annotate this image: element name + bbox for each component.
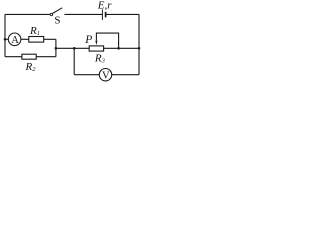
node dot junction <box>55 47 58 50</box>
wire voltmeter vertical <box>73 48 75 74</box>
wire battery-to-right <box>106 13 139 15</box>
node dot left <box>4 38 7 41</box>
wire rheostat slider link <box>96 33 118 48</box>
rheostat R3 <box>84 34 105 65</box>
wire middle bus <box>56 47 139 49</box>
wire voltmeter bottom <box>74 74 99 76</box>
svg-text:S: S <box>54 15 60 27</box>
wire top-left segment <box>5 13 50 15</box>
wire junction column <box>55 39 57 56</box>
node dot slider link <box>117 47 120 50</box>
ammeter A <box>8 33 21 46</box>
wire R2 branch <box>5 56 56 58</box>
svg-text:R1: R1 <box>29 25 40 37</box>
svg-text:P: P <box>84 34 92 46</box>
battery E,r <box>97 0 112 20</box>
wire right vertical <box>138 14 140 74</box>
wire ammeter-to-R1 <box>21 38 56 40</box>
svg-text:V: V <box>102 71 110 82</box>
node dot right bus <box>138 47 141 50</box>
resistor R1 <box>29 25 44 42</box>
node dot voltmeter tap <box>73 47 76 50</box>
wire voltmeter-to-right <box>112 74 139 76</box>
wire switch-to-battery <box>64 13 102 15</box>
wire ammeter branch <box>5 38 8 40</box>
svg-text:R2: R2 <box>25 61 37 73</box>
wire left vertical <box>4 14 6 56</box>
svg-text:A: A <box>11 35 19 46</box>
resistor R2 <box>22 54 36 73</box>
switch S <box>50 8 62 27</box>
voltmeter V <box>99 69 111 82</box>
svg-text:E,r: E,r <box>97 0 112 12</box>
svg-text:R3: R3 <box>94 53 106 65</box>
